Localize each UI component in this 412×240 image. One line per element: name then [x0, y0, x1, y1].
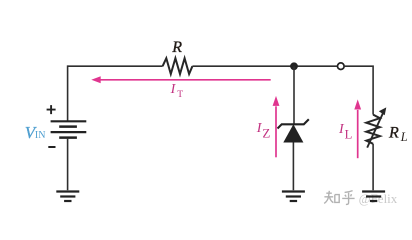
svg-text:R: R	[388, 124, 399, 141]
zener diode D1 cathode bar	[278, 119, 309, 128]
variable-resistor arrow through RL	[367, 113, 383, 148]
svg-text:I: I	[170, 82, 177, 97]
resistor R	[163, 58, 193, 74]
battery VIN plates	[51, 120, 87, 122]
wire junction down to zener	[293, 66, 295, 124]
svg-text:T: T	[177, 90, 183, 100]
wire top-left horizontal	[68, 65, 163, 67]
watermark zhihu glyph 知	[324, 191, 339, 204]
ground under zener	[282, 190, 305, 192]
svg-text:Z: Z	[262, 126, 270, 141]
node junction dot	[290, 62, 298, 70]
wire resistor to junction to terminal	[192, 65, 337, 67]
resistor RL zigzag	[366, 115, 380, 144]
svg-text:L: L	[400, 130, 408, 144]
svg-text:@Felix: @Felix	[359, 191, 398, 206]
wire zener to ground	[292, 143, 294, 191]
wire terminal to right corner down to RL	[344, 66, 373, 114]
wire top-left corner down to battery	[67, 65, 69, 121]
current arrow IT	[99, 79, 271, 81]
current arrow IL	[357, 110, 359, 158]
svg-text:L: L	[345, 127, 353, 141]
wire RL to ground	[372, 144, 374, 190]
output terminal (open circle)	[338, 63, 345, 70]
battery minus sign	[48, 146, 55, 148]
ground under RL	[362, 190, 385, 192]
battery plus sign	[47, 105, 56, 114]
ground under battery	[56, 190, 79, 192]
svg-text:IN: IN	[35, 130, 46, 141]
svg-text:R: R	[171, 39, 182, 56]
current arrow IZ	[275, 106, 277, 157]
wire battery to ground	[67, 139, 69, 191]
watermark zhihu glyph 乎	[342, 191, 354, 205]
zener diode D1 anode triangle	[283, 124, 303, 142]
